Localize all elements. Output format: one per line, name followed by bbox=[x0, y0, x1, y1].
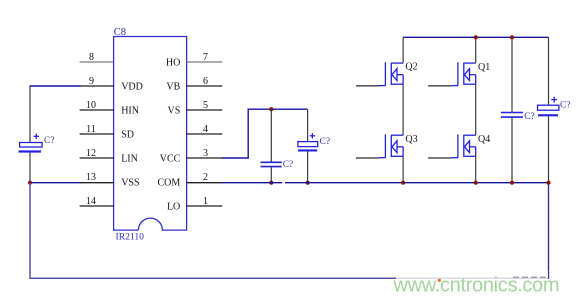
transistor Q2 (NMOS high side left) bbox=[378, 62, 403, 85]
watermark logo dot bbox=[438, 279, 441, 282]
wire Q2 drain lead to top rail bbox=[402, 37, 404, 63]
capacitor right bottom lead bbox=[511, 117, 513, 183]
wire faded remnant under watermark bbox=[513, 276, 546, 278]
svg-text:11: 11 bbox=[86, 124, 96, 135]
capacitor C? (middle polarized) top lead bbox=[307, 109, 309, 141]
svg-text:13: 13 bbox=[86, 172, 96, 183]
wire VDD pin9 to left cap bbox=[30, 85, 81, 87]
svg-text:IR2110: IR2110 bbox=[116, 232, 145, 243]
pin 5 stub (VS) bbox=[186, 109, 222, 111]
svg-text:LIN: LIN bbox=[121, 153, 138, 164]
svg-text:Q4: Q4 bbox=[478, 134, 490, 145]
svg-text:Q2: Q2 bbox=[405, 61, 417, 72]
svg-text:3: 3 bbox=[203, 148, 208, 159]
capacitor C? (right bus decoupling) top lead bbox=[511, 37, 513, 112]
svg-text:www.cntronics.com: www.cntronics.com bbox=[393, 274, 560, 296]
junction dot middle cap on COM rail bbox=[269, 181, 273, 185]
pin 7 stub (HO) bbox=[186, 61, 222, 63]
wire COM rail continued bbox=[285, 182, 549, 184]
junction dot VCC feed node bbox=[269, 107, 273, 111]
svg-text:1: 1 bbox=[203, 196, 208, 207]
op-amp/driver IC U1 (IR2110) body bbox=[114, 37, 187, 231]
svg-text:C?: C? bbox=[44, 136, 55, 146]
capacitor C? (right polarized bulk) top lead bbox=[548, 37, 550, 105]
junction dot right cap on COM rail bbox=[510, 181, 514, 185]
svg-text:C?: C? bbox=[283, 160, 294, 170]
wire Q1 gate stub bbox=[428, 85, 451, 87]
svg-text:SD: SD bbox=[121, 129, 134, 140]
capacitor C? (middle polarized) bbox=[298, 133, 318, 151]
capacitor right polarized bottom lead bbox=[548, 116, 550, 182]
svg-text:Q3: Q3 bbox=[405, 134, 417, 145]
svg-text:12: 12 bbox=[86, 148, 96, 159]
pin 4 stub bbox=[186, 133, 222, 135]
svg-text:5: 5 bbox=[203, 100, 208, 111]
svg-text:9: 9 bbox=[89, 76, 94, 87]
capacitor C? (middle decoupling) plates bbox=[261, 162, 282, 166]
transistor Q4 (NMOS low side right) bbox=[451, 134, 476, 157]
wire Q1 source to Q4 drain bbox=[475, 84, 477, 135]
wire VSS pin13 to left node bbox=[30, 182, 81, 184]
wire bottom return bbox=[29, 277, 548, 279]
wire C7 bottom lead bbox=[29, 153, 31, 183]
wire left vertical to bottom return bbox=[29, 183, 31, 279]
svg-text:COM: COM bbox=[158, 177, 181, 188]
svg-text:VSS: VSS bbox=[121, 177, 139, 188]
wire VCC pin3 run bbox=[222, 109, 308, 158]
svg-text:VCC: VCC bbox=[160, 153, 181, 164]
svg-text:C?: C? bbox=[524, 112, 535, 122]
pin 10 stub (HIN) bbox=[80, 109, 115, 111]
wire Q4 source to COM rail bbox=[475, 156, 477, 182]
pin 1 stub (LO) bbox=[186, 205, 222, 207]
junction dot right polarized cap on COM rail bbox=[546, 181, 550, 185]
pin 12 stub (LIN) bbox=[80, 157, 115, 159]
svg-text:VS: VS bbox=[168, 105, 181, 116]
transistor Q1 (NMOS high side right) bbox=[451, 62, 476, 85]
capacitor middle bottom lead bbox=[270, 167, 272, 183]
wire Q2 gate stub bbox=[356, 85, 379, 87]
pin 9 stub (VDD) bbox=[80, 85, 115, 87]
junction dot right cap on top rail bbox=[510, 35, 514, 39]
svg-text:HIN: HIN bbox=[121, 105, 139, 116]
wire Q4 gate stub bbox=[428, 157, 451, 159]
pin 14 stub bbox=[80, 205, 115, 207]
svg-text:HO: HO bbox=[166, 57, 180, 68]
pin 8 stub bbox=[80, 61, 115, 63]
capacitor C? (right polarized bulk) bbox=[538, 97, 559, 117]
pin 2 stub (COM) bbox=[186, 182, 222, 184]
capacitor C? (right bus decoupling) plates bbox=[501, 113, 523, 118]
svg-text:VB: VB bbox=[166, 81, 180, 92]
svg-text:10: 10 bbox=[86, 100, 96, 111]
wire left vertical down to capacitor C7 bbox=[29, 86, 31, 142]
wire right vertical return riser bbox=[548, 183, 550, 279]
wire top bus rail bbox=[403, 36, 548, 38]
capacitor middle polarized bottom lead bbox=[307, 152, 309, 183]
wire Q3 gate stub bbox=[356, 157, 379, 159]
svg-text:VDD: VDD bbox=[121, 81, 143, 92]
svg-text:14: 14 bbox=[86, 196, 96, 207]
svg-text:LO: LO bbox=[167, 201, 180, 212]
pin 13 stub (VSS) bbox=[80, 182, 115, 184]
svg-text:C?: C? bbox=[320, 137, 331, 147]
svg-text:6: 6 bbox=[203, 76, 208, 87]
svg-text:2: 2 bbox=[203, 172, 208, 183]
junction dot Q3 source on COM rail bbox=[401, 181, 405, 185]
svg-text:C?: C? bbox=[560, 100, 571, 110]
svg-text:C8: C8 bbox=[114, 27, 126, 38]
wire COM rail bbox=[222, 182, 282, 184]
pin 3 stub (VCC) bbox=[186, 157, 222, 159]
watermark fade box bbox=[396, 270, 548, 285]
junction dot VSS node bbox=[28, 181, 32, 185]
capacitor C? (middle decoupling) top lead bbox=[270, 109, 272, 162]
pin 6 stub (VB) bbox=[186, 85, 222, 87]
svg-text:4: 4 bbox=[203, 124, 208, 135]
junction dot middle polarized cap on COM rail bbox=[306, 181, 310, 185]
wire Q3 source to COM rail bbox=[402, 156, 404, 182]
svg-text:8: 8 bbox=[89, 52, 94, 63]
pin 11 stub (SD) bbox=[80, 133, 115, 135]
junction dot Q4 source on COM rail bbox=[474, 181, 478, 185]
wire Q2 source to Q3 drain bbox=[402, 84, 404, 135]
transistor Q3 (NMOS low side left) bbox=[378, 134, 403, 157]
svg-text:Q1: Q1 bbox=[478, 62, 490, 73]
svg-text:7: 7 bbox=[203, 52, 208, 63]
wire Q1 drain lead to top rail bbox=[475, 37, 477, 63]
capacitor C7 (polarized, left) bbox=[19, 134, 43, 153]
junction dot Q1 drain on top rail bbox=[474, 35, 478, 39]
